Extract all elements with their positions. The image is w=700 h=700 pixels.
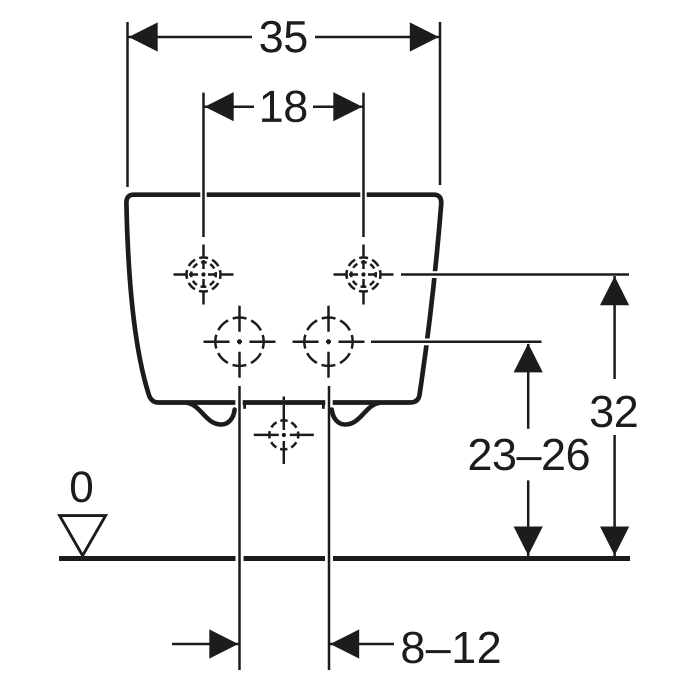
extension line 18 right [362,93,365,237]
hole top-left: crosshair horizontal [174,273,234,276]
dimension text 23-26 [470,439,589,471]
hole top-right: outer dashed circle [347,258,381,292]
gap in bottom edge at right hole extension crossing [325,399,332,406]
hole bottom-center: crosshair horizontal [254,434,314,437]
body outline (bidet rear view) [126,195,441,403]
arrowhead 18 left [205,92,234,121]
gap in top edge at right 18-extension crossing [360,191,366,198]
dimension line 35 [128,36,253,39]
dimension line 8-12 left segment [172,643,239,646]
extension line 18 left [202,93,205,237]
extension line 35 left [126,22,129,187]
leader line from bottom-right hole to 23-26 dimension [371,341,542,344]
arrowhead 32 bottom [600,527,629,556]
hole top-right: crosshair vertical [362,245,365,305]
arrowhead 35 right [410,22,439,51]
hole top-left: inner dashed circle [191,262,216,287]
leader line from top-right hole to 32 dimension [401,273,629,276]
gap in top edge at left 18-extension crossing [200,191,206,198]
arrowhead 32 top [600,276,629,305]
hole bottom-center: crosshair vertical [283,405,286,464]
hole bottom-center: dashed circle [269,420,298,449]
hole bottom-left: dashed circle [215,318,263,366]
arrowhead 23-26 top [514,343,543,372]
gap in right edge at 23-26-leader crossing [422,339,432,346]
datum triangle [60,516,106,556]
dimension text 18 [262,91,306,123]
arrowhead 8-12 left (pointing right) [209,629,238,658]
extension line below bottom-left hole [238,386,241,670]
hole top-left: crosshair vertical [202,245,205,305]
gap in right edge at 32-leader crossing [430,271,440,278]
hole bottom-right: center dot [326,340,330,344]
right foot curve [332,403,380,425]
hole top-right: crosshair horizontal [334,273,394,276]
datum zero text [71,471,92,502]
bottom recess tick right [322,403,325,409]
dimension line 32 vertical [613,276,616,379]
extension line 35 right [439,22,442,185]
hole bottom-center: centerline stub above body bottom edge [283,397,286,401]
hole top-right: center dot [361,272,365,276]
arrowhead 35 left [129,22,158,51]
hole bottom-left: center dot [237,340,241,344]
floor line [59,556,630,561]
extension line below bottom-right hole [328,386,331,670]
left foot curve [187,403,235,425]
hole bottom-right: dashed circle [304,318,352,366]
dimension line 18 [204,105,255,108]
hole top-left: outer dashed circle [187,258,221,292]
hole bottom-right: crosshair horizontal [293,340,365,343]
bottom recess tick left [243,403,246,409]
hole bottom-left: crosshair vertical [238,306,241,378]
dimension text 35 [260,21,306,53]
hole top-left: center dot [201,272,205,276]
arrowhead 23-26 bottom [514,527,543,556]
gap in bottom edge at left hole extension crossing [235,399,242,406]
arrowhead 8-12 right (pointing left) [330,629,359,658]
dimension text 8-12 [402,632,499,664]
hole top-right: inner dashed circle [351,262,376,287]
dimension line 23-26 vertical [527,344,530,429]
dimension text 32 [591,396,637,428]
hole bottom-left: crosshair horizontal [204,340,276,343]
hole bottom-center: center dot [282,433,286,437]
hole bottom-right: crosshair vertical [327,306,330,378]
arrowhead 18 right [333,92,362,121]
dimension line 8-12 right segment [330,643,394,646]
